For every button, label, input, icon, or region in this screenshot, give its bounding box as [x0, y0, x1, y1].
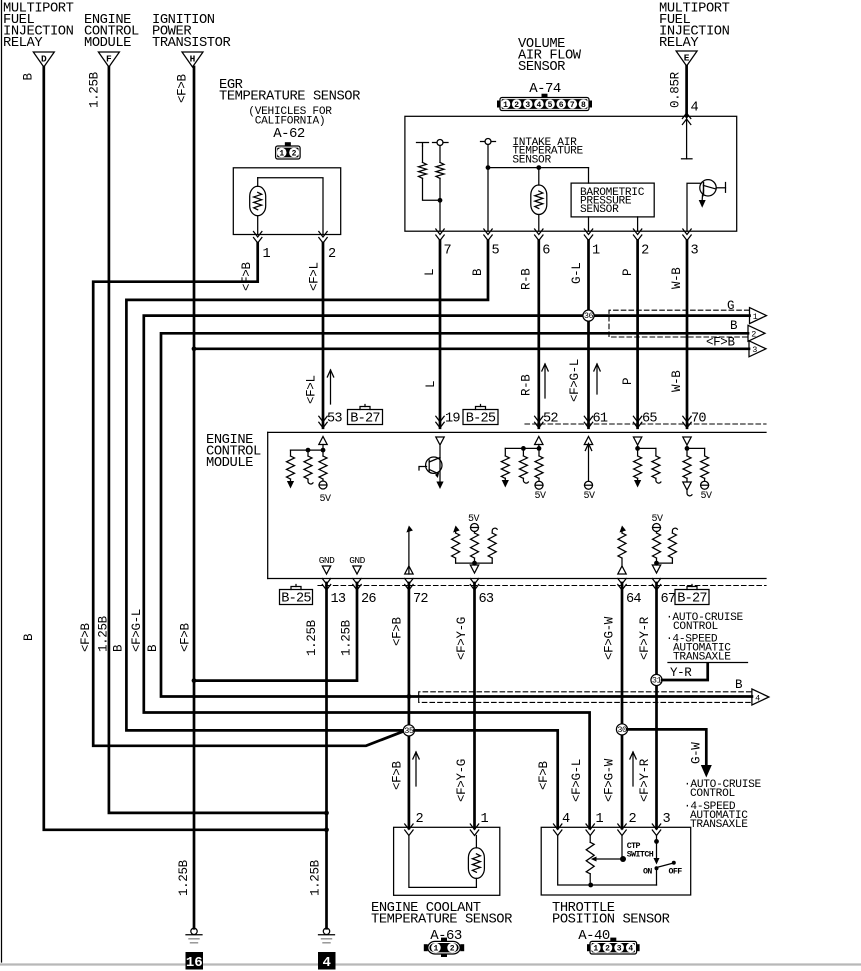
svg-text:36: 36	[584, 311, 594, 321]
svg-text:<F>B: <F>B	[391, 761, 405, 790]
svg-text:4: 4	[323, 955, 331, 971]
svg-text:1: 1	[433, 945, 438, 954]
svg-text:5V: 5V	[700, 491, 712, 502]
svg-text:<F>B: <F>B	[179, 623, 193, 652]
svg-text:D: D	[41, 54, 47, 65]
svg-text:P: P	[621, 269, 635, 276]
svg-text:B: B	[146, 644, 160, 652]
ECM transistor (pin 19)	[439, 446, 441, 482]
svg-text:R-B: R-B	[520, 268, 534, 290]
svg-text:2: 2	[328, 247, 336, 262]
svg-text:0.85R: 0.85R	[669, 71, 683, 108]
svg-text:B: B	[22, 633, 36, 641]
svg-text:8: 8	[581, 101, 586, 110]
svg-text:1.25B: 1.25B	[340, 619, 354, 656]
VAF pin 3	[683, 229, 691, 241]
wire L: VAF pin7 to ECM pin 19	[439, 241, 442, 428]
joint 36	[583, 310, 594, 321]
svg-text:GND: GND	[319, 555, 335, 566]
joint 31	[651, 674, 662, 685]
ECM resistor network (pin 70)	[686, 446, 688, 448]
svg-text:5V: 5V	[534, 491, 546, 502]
svg-text:5V: 5V	[319, 494, 331, 505]
svg-text:35: 35	[404, 726, 414, 736]
svg-text:2: 2	[605, 945, 610, 954]
wire 0.85R from relay E into VAF box pin 4	[685, 66, 688, 116]
connector D (multiport fuel injection relay)	[33, 52, 54, 67]
svg-text:H: H	[190, 54, 196, 65]
svg-text:<F>Y-R: <F>Y-R	[638, 616, 652, 660]
ECM resistor network (pin 52)	[538, 445, 540, 449]
svg-text:RELAY: RELAY	[659, 36, 699, 51]
svg-text:SWITCH: SWITCH	[627, 851, 654, 860]
svg-text:2: 2	[641, 244, 649, 259]
ECM pin 53	[319, 416, 327, 428]
ground 16	[191, 928, 197, 934]
connector icon A-74	[500, 98, 589, 111]
wire to TPS pin 4 from joint 35	[415, 730, 558, 828]
page bottom rule	[0, 963, 861, 965]
svg-text:B: B	[735, 678, 743, 692]
ECM pin 13	[322, 579, 330, 591]
svg-text:TRANSAXLE: TRANSAXLE	[690, 819, 748, 831]
svg-text:P: P	[621, 378, 635, 385]
dashed harness box (top)	[609, 310, 749, 337]
VAF transistor	[687, 183, 700, 231]
engine coolant temperature sensor box	[394, 827, 500, 895]
VAF pin 1	[584, 229, 592, 241]
wire <F>B from EGR pin1: down, left, down, to joint 35	[93, 243, 403, 746]
svg-text:70: 70	[691, 412, 706, 427]
ECM pin 64	[618, 579, 626, 591]
svg-text:16: 16	[186, 955, 203, 971]
joint 35	[403, 725, 414, 736]
joint 30	[616, 724, 627, 735]
branch Y-R to transaxle	[662, 664, 708, 681]
svg-text:<F>Y-R: <F>Y-R	[638, 758, 652, 802]
svg-text:63: 63	[479, 592, 494, 607]
svg-text:61: 61	[593, 412, 608, 427]
connector H (ignition power transistor)	[182, 52, 203, 67]
wire <F>B from ignition power transistor H down to ground 16	[193, 67, 196, 928]
VAF pin 5	[484, 229, 492, 241]
ground 4	[323, 928, 329, 934]
IAT thermistor	[538, 168, 540, 185]
ECM resistor network (pin 65)	[637, 446, 639, 448]
arrow 3	[749, 341, 766, 357]
svg-text:3: 3	[691, 244, 699, 259]
svg-text:W-B: W-B	[670, 370, 684, 392]
VAF internal resistor pair (left)	[422, 146, 424, 162]
svg-text:B-27: B-27	[677, 591, 707, 606]
connector box B-25 (bottom)	[280, 590, 313, 605]
svg-text:1: 1	[596, 812, 604, 827]
svg-text:<F>G-W: <F>G-W	[603, 616, 617, 660]
svg-text:B: B	[22, 73, 36, 81]
svg-text:B-25: B-25	[466, 411, 496, 426]
EGR thermistor	[250, 186, 266, 215]
svg-text:<F>L: <F>L	[308, 262, 322, 291]
bus B: arrow 2, down-left, to arrow 4	[161, 333, 752, 696]
svg-text:64: 64	[626, 592, 641, 607]
svg-text:2: 2	[292, 149, 297, 158]
dashed connector line (ECM bottom)	[318, 585, 766, 587]
svg-text:2: 2	[514, 101, 519, 110]
svg-text:1: 1	[593, 945, 598, 954]
svg-text:<F>B: <F>B	[79, 623, 93, 652]
wire 1.25B pin13 down to ground 4	[325, 583, 328, 928]
svg-text:26: 26	[361, 592, 376, 607]
EGR temperature sensor box	[233, 168, 340, 235]
connector icon A-62	[276, 146, 301, 159]
svg-text:1.25B: 1.25B	[177, 859, 191, 896]
svg-text:B: B	[730, 319, 738, 333]
ECM pin 65	[633, 416, 641, 428]
svg-text:SENSOR: SENSOR	[512, 154, 551, 166]
svg-text:<F>L: <F>L	[305, 375, 319, 404]
wire R-B: VAF pin6 to ECM pin 52	[537, 241, 540, 428]
ECM pin 19	[436, 416, 444, 428]
svg-text:MODULE: MODULE	[84, 36, 131, 51]
svg-text:B-27: B-27	[350, 411, 380, 426]
svg-text:2: 2	[416, 812, 424, 827]
svg-text:72: 72	[413, 592, 428, 607]
svg-text:A-62: A-62	[273, 126, 305, 142]
EGR pin 2	[319, 232, 327, 244]
ECM pin 61	[584, 416, 592, 428]
svg-text:SENSOR: SENSOR	[518, 60, 565, 75]
svg-text:65: 65	[642, 412, 657, 427]
svg-text:B: B	[112, 644, 126, 652]
svg-text:1: 1	[753, 312, 758, 322]
svg-text:E: E	[684, 53, 690, 64]
svg-text:<F>Y-G: <F>Y-G	[455, 759, 469, 802]
svg-text:1.25B: 1.25B	[97, 615, 111, 652]
svg-text:4: 4	[691, 101, 699, 116]
svg-text:ON: ON	[643, 868, 652, 877]
bus G: to arrow 1	[144, 316, 750, 828]
svg-text:POSITION SENSOR: POSITION SENSOR	[552, 913, 670, 928]
svg-text:3: 3	[663, 812, 671, 827]
svg-text:B-25: B-25	[281, 591, 311, 606]
svg-text:67: 67	[661, 592, 676, 607]
EGR inner wiring	[257, 178, 259, 187]
svg-text:Y-R: Y-R	[670, 666, 692, 680]
svg-text:MODULE: MODULE	[206, 456, 253, 471]
svg-text:<F>Y-G: <F>Y-G	[455, 617, 469, 660]
ECM pin 72	[405, 579, 413, 591]
svg-text:CONTROL: CONTROL	[673, 621, 718, 633]
wire P: VAF pin2 to ECM pin 65	[636, 241, 639, 428]
svg-text:6: 6	[559, 101, 564, 110]
svg-text:1.25B: 1.25B	[88, 71, 102, 108]
svg-text:7: 7	[444, 244, 452, 259]
VAF pin 7	[436, 229, 444, 241]
svg-text:1.25B: 1.25B	[309, 859, 323, 896]
svg-text:53: 53	[327, 412, 342, 427]
svg-text:TEMPERATURE SENSOR: TEMPERATURE SENSOR	[371, 913, 512, 928]
ECM internal line (pin 72)	[408, 532, 410, 574]
bus <F>B: from H joint to arrow 3	[194, 347, 749, 350]
wire 1.25B pin26 down-left joining H wire	[194, 583, 357, 681]
svg-text:F: F	[106, 54, 112, 65]
svg-text:5: 5	[492, 244, 500, 259]
svg-text:CONTROL: CONTROL	[690, 788, 735, 800]
svg-text:OFF: OFF	[669, 868, 683, 877]
connector F (engine control module)	[98, 52, 119, 67]
svg-text:G: G	[727, 299, 734, 313]
ECT thermistor	[475, 836, 477, 848]
TPS wiper	[591, 857, 597, 862]
svg-text:30: 30	[617, 725, 627, 735]
arrow 2	[748, 325, 765, 341]
svg-text:<F>B: <F>B	[391, 617, 405, 646]
svg-text:3: 3	[525, 101, 530, 110]
ECM pin 70	[683, 416, 691, 428]
svg-text:<F>B: <F>B	[706, 336, 735, 350]
ECM pin 52	[535, 416, 543, 428]
svg-text:TRANSISTOR: TRANSISTOR	[152, 36, 230, 51]
svg-text:4: 4	[628, 945, 633, 954]
svg-text:4: 4	[755, 693, 760, 703]
svg-text:2: 2	[450, 945, 455, 954]
wire <F>L from EGR pin2 down to ECM pin 53	[322, 243, 325, 428]
dashed connector line (ECM top)	[525, 423, 766, 425]
barometric pressure sensor box	[588, 168, 590, 184]
throttle position sensor box	[541, 827, 691, 895]
wire G-L: VAF pin1 to ECM pin 61	[587, 241, 590, 428]
svg-text:<F>B: <F>B	[240, 262, 254, 291]
svg-text:1.25B: 1.25B	[305, 619, 319, 656]
connector box B-27 (bottom)	[675, 590, 709, 605]
svg-text:TEMPERATURE SENSOR: TEMPERATURE SENSOR	[219, 90, 360, 105]
wire B: VAF pin5 left-routed down to joint 35	[126, 241, 488, 731]
TPS potentiometer	[558, 836, 591, 886]
ECM pin 26	[353, 579, 361, 591]
svg-text:1: 1	[592, 244, 600, 259]
svg-text:31: 31	[652, 676, 662, 686]
ECM 5V pull (pin 61)	[588, 446, 590, 481]
wire 1.25B from ECM F down/right joining pin13 wire	[109, 67, 327, 813]
svg-text:5: 5	[548, 101, 553, 110]
svg-text:L: L	[424, 381, 438, 388]
svg-text:3: 3	[617, 945, 622, 954]
branch G-W to auto-cruise/transaxle	[628, 729, 707, 765]
svg-text:GND: GND	[349, 555, 365, 566]
svg-text:1: 1	[503, 101, 508, 110]
svg-text:2: 2	[751, 330, 756, 340]
svg-text:SENSOR: SENSOR	[580, 204, 619, 216]
svg-text:<F>G-W: <F>G-W	[603, 758, 617, 802]
ECM resistor network (pin 53)	[322, 445, 324, 451]
connector E (multiport fuel injection relay)	[676, 51, 697, 66]
svg-text:<F>G-L: <F>G-L	[570, 759, 584, 802]
VAF pin 2	[633, 229, 641, 241]
svg-text:L: L	[423, 269, 437, 276]
svg-text:5V: 5V	[583, 491, 595, 502]
wire <F>G-W pin64 down to TPS pin 2	[621, 583, 624, 828]
svg-text:4: 4	[562, 812, 570, 827]
svg-text:1: 1	[263, 247, 271, 262]
volume air flow sensor box	[405, 116, 737, 231]
EGR pin 1	[254, 232, 262, 244]
connector box B-25 (top)	[463, 410, 498, 425]
svg-text:<F>B: <F>B	[537, 761, 551, 790]
wire B from relay D down/right to ground-4 stem	[44, 67, 327, 830]
arrow 1	[750, 308, 767, 324]
svg-text:G-L: G-L	[570, 263, 584, 284]
ECM pin 67	[652, 579, 660, 591]
svg-text:19: 19	[445, 412, 460, 427]
wire <F>Y-R pin67 down to TPS pin 3	[655, 583, 658, 828]
svg-text:4: 4	[537, 101, 542, 110]
svg-text:G-W: G-W	[690, 742, 704, 764]
ECM resistor (pin 64)	[621, 532, 623, 533]
svg-text:7: 7	[570, 101, 575, 110]
connector box B-27 (top)	[348, 410, 383, 425]
svg-text:2: 2	[629, 812, 637, 827]
svg-text:1: 1	[481, 812, 489, 827]
svg-text:<F>G-L: <F>G-L	[568, 359, 582, 402]
svg-text:RELAY: RELAY	[3, 36, 43, 51]
svg-text:13: 13	[331, 592, 346, 607]
svg-text:B: B	[471, 268, 485, 276]
svg-text:1: 1	[279, 149, 284, 158]
VAF pin 6	[535, 229, 543, 241]
svg-text:TRANSAXLE: TRANSAXLE	[673, 652, 731, 664]
wire W-B: VAF pin3 to ECM pin 70	[686, 241, 689, 428]
svg-text:R-B: R-B	[520, 374, 534, 396]
svg-text:52: 52	[543, 412, 558, 427]
wire <F>B pin72 down to ECT pin 2	[408, 583, 411, 828]
ECM pin 63	[470, 579, 478, 591]
svg-text:<F>G-L: <F>G-L	[130, 609, 144, 652]
svg-text:3: 3	[752, 345, 757, 355]
wire <F>Y-G pin63 down to ECT pin 1	[473, 583, 476, 828]
svg-text:<F>B: <F>B	[176, 74, 190, 103]
svg-text:6: 6	[542, 244, 550, 259]
VAF relay heater stub	[686, 116, 688, 159]
page left border	[1, 0, 3, 962]
svg-text:W-B: W-B	[670, 267, 684, 289]
